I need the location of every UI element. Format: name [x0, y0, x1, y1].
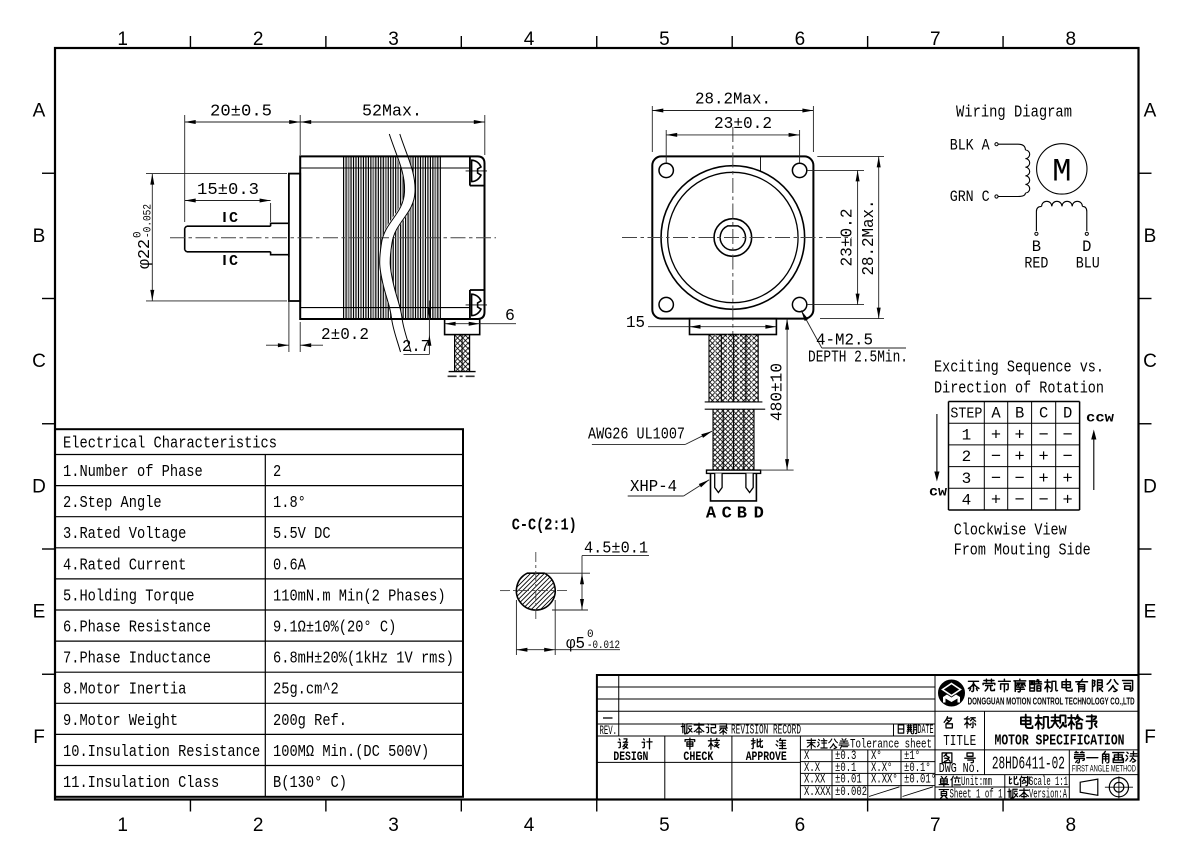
svg-text:REV.: REV.: [600, 723, 618, 738]
svg-text:8.Motor Inertia: 8.Motor Inertia: [63, 680, 186, 699]
scale cell: [1010, 775, 1068, 789]
svg-text:B: B: [1144, 226, 1157, 247]
svg-text:2.7: 2.7: [402, 337, 430, 356]
revision record heading: [681, 723, 801, 738]
dim 23±0.2 right: [807, 170, 864, 304]
dim 2.7: [402, 301, 431, 357]
date heading: [898, 723, 933, 737]
svg-text:11.Insulation Class: 11.Insulation Class: [63, 773, 219, 792]
name/title cell: [943, 717, 976, 750]
svg-text:XHP-4: XHP-4: [630, 477, 677, 496]
svg-text:−: −: [1015, 470, 1025, 489]
side wire bundle: [449, 335, 476, 372]
seam line: [760, 156, 762, 172]
svg-text:+: +: [1063, 492, 1073, 511]
svg-text:+: +: [991, 427, 1001, 446]
design cell: [613, 739, 652, 764]
svg-text:1: 1: [117, 815, 128, 836]
svg-text:23±0.2: 23±0.2: [838, 209, 857, 267]
svg-text:A: A: [991, 404, 1001, 422]
svg-text:DATE: DATE: [918, 723, 934, 737]
svg-text:RED: RED: [1024, 255, 1048, 273]
dim 15: [626, 313, 776, 332]
svg-text:7: 7: [930, 815, 941, 836]
hole at 799.6,304.6: [792, 297, 806, 311]
svg-text:D: D: [754, 505, 764, 524]
svg-text:5.Holding Torque: 5.Holding Torque: [63, 586, 195, 605]
version cell: [1008, 787, 1067, 801]
side wire break centerline: [448, 375, 477, 377]
rev dash: [603, 717, 613, 719]
check cell: [683, 738, 719, 764]
svg-text:C: C: [229, 253, 238, 270]
svg-text:200g Ref.: 200g Ref.: [273, 711, 347, 730]
first angle cell: [1072, 751, 1137, 773]
section C-C shaft cut: [460, 565, 609, 617]
dim 15±0.3: [185, 180, 271, 222]
mounting screw top: [466, 156, 487, 185]
svg-text:cw: cw: [929, 486, 948, 501]
svg-text:1.Number of Phase: 1.Number of Phase: [63, 462, 203, 481]
svg-text:8: 8: [1065, 29, 1076, 50]
svg-text:6.8mH±20%(1kHz 1V rms): 6.8mH±20%(1kHz 1V rms): [273, 649, 454, 668]
side connector block: [445, 319, 480, 335]
label XHP-4: [628, 477, 710, 496]
svg-text:15±0.3: 15±0.3: [197, 180, 259, 199]
svg-text:F: F: [1144, 727, 1156, 748]
svg-text:B(130° C): B(130° C): [273, 773, 347, 792]
dim φ22: [133, 174, 288, 301]
svg-text:Exciting Sequence vs.: Exciting Sequence vs.: [934, 359, 1104, 378]
svg-text:DONGGUAN MOTION CONTROL TECHNO: DONGGUAN MOTION CONTROL TECHNOLOGY CO.,L…: [968, 697, 1135, 708]
dim 20±0.5: [185, 102, 301, 223]
label AWG26 UL1007: [588, 425, 712, 445]
company name CN: [968, 681, 978, 691]
svg-text:A: A: [706, 505, 717, 524]
svg-text:3: 3: [388, 29, 399, 50]
break band: [385, 136, 410, 350]
svg-text:2.Step Angle: 2.Step Angle: [63, 493, 162, 512]
ccw arrow: [1086, 412, 1115, 491]
svg-text:B: B: [737, 505, 747, 524]
break lines: [380, 134, 405, 352]
svg-text:DEPTH 2.5Min.: DEPTH 2.5Min.: [808, 348, 908, 367]
svg-text:TITLE: TITLE: [943, 734, 976, 750]
svg-text:B: B: [1032, 238, 1041, 256]
shaft centerline: [170, 237, 496, 239]
sheet cell: [939, 787, 1002, 801]
svg-text:AWG26 UL1007: AWG26 UL1007: [588, 425, 685, 444]
svg-text:4.Rated Current: 4.Rated Current: [63, 555, 186, 574]
svg-text:X.XXX: X.XXX: [804, 785, 831, 799]
svg-text:Direction of Rotation: Direction of Rotation: [934, 380, 1104, 399]
node D: [1085, 232, 1088, 235]
motor body outline: [300, 156, 484, 319]
svg-text:1: 1: [117, 29, 128, 50]
svg-text:6: 6: [505, 306, 515, 325]
svg-text:GRN C: GRN C: [950, 188, 990, 206]
svg-text:B: B: [1015, 404, 1024, 422]
svg-text:B: B: [33, 226, 46, 247]
svg-text:Wiring Diagram: Wiring Diagram: [956, 104, 1072, 123]
svg-text:10.Insulation Resistance: 10.Insulation Resistance: [63, 742, 260, 761]
motor circle M: [1037, 144, 1087, 194]
svg-text:28HD6411-02: 28HD6411-02: [992, 754, 1065, 775]
C-C centerlines: [535, 552, 537, 622]
svg-text:D: D: [1063, 404, 1072, 422]
tolerance heading: [807, 737, 932, 751]
dim 2±0.2: [266, 257, 369, 352]
svg-text:DESIGN: DESIGN: [613, 749, 648, 764]
svg-text:−: −: [1063, 427, 1073, 446]
dim 28.2Max right: [817, 156, 884, 318]
svg-text:D: D: [1082, 238, 1091, 256]
svg-text:5: 5: [659, 815, 670, 836]
svg-text:7.Phase Inductance: 7.Phase Inductance: [63, 649, 211, 668]
hole at 666.2,304.6: [659, 297, 673, 311]
svg-text:−: −: [1039, 427, 1049, 446]
svg-text:9.Motor Weight: 9.Motor Weight: [63, 711, 178, 730]
svg-text:Version:A: Version:A: [1029, 787, 1067, 801]
title block: [597, 675, 1139, 800]
svg-text:+: +: [991, 492, 1001, 511]
svg-text:Clockwise View: Clockwise View: [954, 522, 1068, 541]
svg-text:−: −: [991, 448, 1001, 467]
svg-text:Electrical Characteristics: Electrical Characteristics: [63, 434, 277, 453]
pilot circle inner: [668, 172, 798, 302]
svg-text:-0.052: -0.052: [143, 204, 155, 238]
svg-text:−: −: [1015, 492, 1025, 511]
svg-text:4.5±0.1: 4.5±0.1: [584, 539, 648, 558]
front view square: [652, 156, 813, 318]
motor body side view laminations: [344, 156, 441, 319]
dim φ5: [516, 600, 620, 655]
svg-text:3.Rated Voltage: 3.Rated Voltage: [63, 524, 186, 543]
svg-text:−: −: [991, 470, 1001, 489]
wire coil to C: [998, 193, 1025, 197]
XHP-4 connector: [707, 470, 761, 501]
svg-text:2: 2: [253, 29, 264, 50]
svg-text:5.5V DC: 5.5V DC: [273, 524, 331, 543]
wire A to coil: [998, 144, 1025, 150]
hole at 666.2,170.4: [659, 163, 673, 177]
svg-text:C: C: [229, 210, 238, 227]
dwg no cell: [939, 753, 981, 777]
dim 6: [445, 306, 516, 326]
coil A-C: [1025, 150, 1029, 193]
svg-text:25g.cm^2: 25g.cm^2: [273, 680, 339, 699]
svg-text:6.Phase Resistance: 6.Phase Resistance: [63, 618, 211, 637]
svg-text:100MΩ Min.(DC 500V): 100MΩ Min.(DC 500V): [273, 742, 429, 761]
company logo: [939, 680, 965, 706]
coil B-D: [1036, 201, 1086, 231]
svg-text:C-C(2:1): C-C(2:1): [512, 517, 577, 536]
svg-text:6: 6: [795, 815, 806, 836]
front connector housing: [690, 319, 777, 335]
node A: [995, 143, 998, 146]
front wire bundle lower: [705, 409, 766, 470]
svg-text:−: −: [1039, 492, 1049, 511]
node C: [995, 195, 998, 198]
svg-text:4: 4: [962, 492, 972, 510]
dim 23±0.2 top: [666, 114, 799, 163]
svg-text:C: C: [1039, 404, 1048, 422]
front centerlines: [732, 127, 734, 336]
mounting screw bottom: [466, 290, 487, 319]
svg-text:REVISION RECORD: REVISION RECORD: [731, 724, 801, 739]
svg-text:M: M: [1052, 154, 1071, 191]
svg-text:From Mouting Side: From Mouting Side: [954, 542, 1091, 561]
svg-text:8: 8: [1065, 815, 1076, 836]
svg-text:+: +: [1039, 448, 1049, 467]
svg-text:FIRST ANGLE METHOD: FIRST ANGLE METHOD: [1072, 763, 1136, 773]
dim 52Max.: [300, 102, 485, 156]
svg-text:φ22: φ22: [136, 239, 155, 269]
svg-text:480±10: 480±10: [768, 363, 787, 421]
svg-text:2: 2: [962, 448, 972, 466]
svg-text:+: +: [1015, 427, 1025, 446]
svg-text:1.8°: 1.8°: [273, 493, 306, 512]
svg-text:2: 2: [273, 462, 281, 481]
svg-text:BLU: BLU: [1076, 255, 1100, 273]
svg-text:Sheet 1 of 1: Sheet 1 of 1: [950, 787, 1003, 801]
svg-text:CHECK: CHECK: [683, 749, 713, 764]
svg-text:0.6A: 0.6A: [273, 555, 306, 574]
svg-text:20±0.5: 20±0.5: [210, 102, 272, 121]
pilot boss: [289, 174, 300, 301]
tolerance cells: [804, 749, 936, 799]
svg-text:23±0.2: 23±0.2: [714, 114, 772, 133]
svg-text:E: E: [1144, 602, 1157, 623]
svg-text:4: 4: [524, 815, 535, 836]
svg-text:BLK A: BLK A: [950, 137, 991, 155]
svg-text:+: +: [1063, 470, 1073, 489]
label 4-M2.5 DEPTH 2.5Min.: [801, 310, 908, 366]
svg-text:STEP: STEP: [950, 406, 982, 422]
svg-text:MOTOR SPECIFICATION: MOTOR SPECIFICATION: [995, 732, 1125, 749]
node B: [1035, 232, 1038, 235]
svg-text:2: 2: [253, 815, 264, 836]
pilot circle outer: [661, 166, 805, 310]
svg-text:3: 3: [388, 815, 399, 836]
svg-text:+: +: [1039, 470, 1049, 489]
svg-text:1: 1: [962, 427, 972, 445]
svg-text:E: E: [33, 602, 46, 623]
svg-text:F: F: [33, 727, 45, 748]
section mark C-C: [225, 210, 239, 270]
approve cell: [746, 739, 787, 764]
svg-text:APPROVE: APPROVE: [746, 749, 787, 764]
unit cell: [939, 775, 992, 789]
svg-text:+: +: [1015, 448, 1025, 467]
svg-text:−: −: [1063, 448, 1073, 467]
dim 28.2Max top: [652, 90, 813, 153]
sequence table: [949, 402, 1080, 511]
electrical characteristics table: [55, 429, 463, 797]
svg-text:A: A: [1144, 101, 1157, 122]
svg-text:±0.01°: ±0.01°: [904, 773, 936, 787]
svg-text:±0.002: ±0.002: [835, 785, 867, 799]
svg-text:52Max.: 52Max.: [362, 102, 422, 121]
svg-text:9.1Ω±10%(20° C): 9.1Ω±10%(20° C): [273, 618, 396, 637]
first angle symbol: [1080, 776, 1133, 798]
svg-text:6: 6: [795, 29, 806, 50]
svg-text:-0.012: -0.012: [587, 640, 620, 652]
svg-text:C: C: [1143, 351, 1157, 372]
shaft circles: [714, 219, 752, 257]
svg-text:5: 5: [659, 29, 670, 50]
svg-text:4: 4: [524, 29, 535, 50]
dim 4.5±0.1: [544, 539, 649, 610]
wire labels A C B D: [706, 505, 764, 524]
svg-text:A: A: [33, 101, 46, 122]
svg-text:ccw: ccw: [1086, 412, 1115, 427]
dim 480±10: [761, 319, 794, 471]
svg-text:2±0.2: 2±0.2: [321, 325, 369, 344]
svg-text:15: 15: [626, 313, 645, 332]
front wire bundle upper: [705, 335, 763, 403]
cw arrow: [929, 414, 948, 501]
svg-text:C: C: [722, 505, 732, 524]
shaft: [185, 223, 289, 254]
svg-text:110mN.m Min(2 Phases): 110mN.m Min(2 Phases): [273, 586, 446, 605]
svg-text:D: D: [1143, 476, 1157, 497]
svg-text:φ5: φ5: [566, 635, 585, 654]
svg-text:7: 7: [930, 29, 941, 50]
svg-text:3: 3: [962, 470, 972, 488]
svg-text:D: D: [32, 476, 46, 497]
svg-text:C: C: [32, 351, 46, 372]
svg-text:X.XX°: X.XX°: [871, 773, 898, 787]
svg-text:28.2Max.: 28.2Max.: [859, 200, 878, 276]
svg-text:28.2Max.: 28.2Max.: [695, 90, 771, 109]
title value: [995, 714, 1125, 749]
hole at 799.6,170.4: [792, 163, 806, 177]
